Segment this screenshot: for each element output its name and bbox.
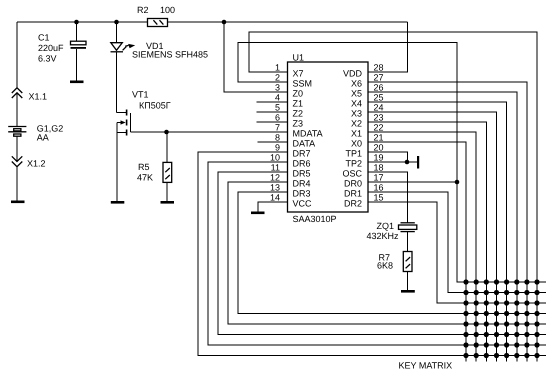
op-amp U1 body (IC SAA3010P)	[288, 62, 369, 212]
svg-text:Z1: Z1	[293, 99, 304, 109]
svg-text:SAA3010P: SAA3010P	[293, 214, 337, 224]
svg-text:X6: X6	[351, 79, 362, 89]
svg-text:16: 16	[374, 183, 384, 193]
svg-text:R2: R2	[137, 5, 149, 15]
svg-text:7: 7	[275, 123, 280, 133]
svg-text:4: 4	[275, 93, 280, 103]
resistor R7	[403, 252, 412, 291]
label AA	[37, 133, 49, 143]
label 100	[160, 5, 175, 15]
svg-text:14: 14	[270, 193, 280, 203]
wire VCC (pin 14) to ground	[258, 202, 288, 212]
ground (R5)	[161, 201, 175, 204]
wire VDD to pin 28	[368, 22, 408, 72]
svg-text:6: 6	[275, 113, 280, 123]
svg-text:DR1: DR1	[344, 189, 362, 199]
ground (pin 14)	[251, 212, 265, 215]
svg-text:ZQ1: ZQ1	[377, 221, 395, 231]
node R5/MDATA junction	[164, 130, 169, 135]
pin numbers left	[270, 63, 280, 203]
svg-text:21: 21	[374, 133, 384, 143]
ground (C1)	[70, 81, 84, 84]
svg-text:15: 15	[374, 193, 384, 203]
svg-text:TP1: TP1	[345, 149, 362, 159]
label R2	[137, 5, 149, 15]
diode VD1 (IR LED)	[111, 22, 136, 113]
label X1.2	[27, 159, 46, 169]
svg-text:X3: X3	[351, 109, 362, 119]
wire X3 (pin 24 to matrix col 4)	[368, 112, 497, 362]
svg-text:C1: C1	[38, 33, 50, 43]
svg-text:13: 13	[270, 183, 280, 193]
wire Z1 stub	[257, 101, 288, 103]
label 220uF	[38, 43, 64, 53]
svg-text:SIEMENS SFH485: SIEMENS SFH485	[132, 50, 208, 60]
label ZQ1	[377, 221, 395, 231]
node VD1/rail junction	[114, 20, 119, 25]
label R5	[138, 162, 150, 172]
key matrix junction dots	[463, 279, 539, 358]
label 47K	[137, 173, 153, 183]
pin labels right	[342, 69, 362, 209]
label 6.3V	[38, 54, 57, 64]
svg-text:DATA: DATA	[293, 139, 316, 149]
ground (R7)	[401, 290, 415, 293]
wire DR5 (pin 11 to row 6)	[218, 172, 546, 335]
label X1.1	[29, 92, 48, 102]
svg-text:X5: X5	[351, 89, 362, 99]
resistor R5	[163, 132, 172, 201]
label VD1	[146, 41, 164, 51]
wire Z2 stub	[257, 111, 288, 113]
svg-text:AA: AA	[37, 133, 49, 143]
label KP505G	[139, 101, 171, 111]
resistor R2	[148, 19, 168, 27]
svg-text:DR6: DR6	[293, 159, 311, 169]
capacitor C1	[71, 22, 87, 81]
svg-text:100: 100	[160, 5, 175, 15]
svg-text:Z0: Z0	[293, 89, 304, 99]
svg-text:КП505Г: КП505Г	[139, 101, 171, 111]
wire X6 (pin 27 to matrix col 7)	[368, 82, 527, 362]
wire DR2 (pin 15 to row 3)	[368, 202, 546, 303]
svg-text:DR5: DR5	[293, 169, 311, 179]
wire X0 (pin 21 to matrix col 1)	[368, 142, 466, 362]
wire Z3 stub	[257, 121, 288, 123]
wire DR4 (pin 12 to row 5)	[228, 182, 546, 324]
svg-text:X7: X7	[293, 69, 304, 79]
crystal ZQ1	[399, 223, 417, 252]
wire DR0 (pin 17)	[368, 181, 457, 183]
node Z0/rail junction	[222, 20, 227, 25]
node DR0/SSM junction	[455, 180, 460, 185]
svg-text:MDATA: MDATA	[293, 129, 323, 139]
svg-text:X4: X4	[351, 99, 362, 109]
svg-text:432KHz: 432KHz	[367, 231, 400, 241]
svg-text:VDD: VDD	[343, 69, 363, 79]
svg-text:11: 11	[271, 163, 280, 173]
wire VDD rail	[17, 21, 408, 23]
connector X1.2	[12, 156, 22, 166]
svg-text:22: 22	[374, 123, 384, 133]
svg-text:9: 9	[275, 143, 280, 153]
svg-text:6.3V: 6.3V	[38, 54, 57, 64]
wire OSC (pin 18 to ZQ1)	[368, 172, 408, 223]
wire MDATA (gate to pin 7)	[131, 131, 288, 133]
svg-text:OSC: OSC	[342, 169, 362, 179]
label VT1	[132, 90, 149, 100]
wire battery branch top	[16, 22, 18, 88]
svg-text:VCC: VCC	[293, 199, 313, 209]
svg-text:12: 12	[270, 173, 280, 183]
svg-text:6K8: 6K8	[377, 261, 393, 271]
wire X1.1 to battery	[16, 93, 18, 126]
svg-text:20: 20	[374, 143, 384, 153]
wire X1.2 to ground	[16, 167, 18, 201]
wire Z0 (pin 3 to rail)	[224, 22, 288, 92]
wire DATA stub	[257, 141, 287, 143]
svg-text:Z2: Z2	[293, 109, 304, 119]
svg-text:TP2: TP2	[345, 159, 362, 169]
wire DR1 (pin 16 to row 2)	[368, 192, 546, 293]
wire X4 (pin 25 to matrix col 5)	[368, 102, 507, 362]
wire SSM route (pin 2 to row 1)	[238, 43, 546, 283]
node TP junction	[405, 160, 410, 165]
wire X2 (pin 23 to matrix col 3)	[368, 122, 486, 362]
pin labels left	[293, 69, 323, 209]
label SIEMENS SFH485	[132, 50, 208, 60]
label R7	[379, 253, 391, 263]
svg-text:X2: X2	[351, 119, 362, 129]
svg-text:26: 26	[374, 83, 384, 93]
wire TP1 (pin 20)	[368, 152, 408, 162]
svg-text:X1.1: X1.1	[29, 92, 48, 102]
svg-text:17: 17	[374, 173, 384, 183]
svg-text:18: 18	[374, 163, 384, 173]
svg-text:5: 5	[275, 103, 280, 113]
svg-text:24: 24	[374, 103, 384, 113]
svg-text:VT1: VT1	[132, 90, 149, 100]
svg-text:X0: X0	[351, 139, 362, 149]
wire X5 (pin 26 to matrix col 6)	[368, 92, 517, 362]
label KEY MATRIX	[399, 361, 453, 371]
node C1/rail junction	[74, 20, 79, 25]
svg-text:19: 19	[374, 153, 384, 163]
wire TP2 (pin 19) to test point	[368, 161, 417, 163]
svg-text:28: 28	[374, 63, 384, 73]
ground (battery)	[11, 201, 25, 204]
svg-text:27: 27	[374, 73, 384, 83]
test point bar	[417, 156, 419, 169]
transistor VT1 (MOSFET)	[117, 110, 131, 202]
wire battery to X1.2	[16, 136, 18, 161]
label SAA3010P	[293, 214, 337, 224]
svg-text:DR3: DR3	[293, 189, 311, 199]
svg-text:X1: X1	[351, 129, 362, 139]
svg-text:3: 3	[275, 83, 280, 93]
svg-text:2: 2	[275, 73, 280, 83]
svg-text:8: 8	[275, 133, 280, 143]
svg-text:220uF: 220uF	[38, 43, 64, 53]
label U1	[293, 53, 305, 63]
label 432KHz	[367, 231, 400, 241]
pin numbers right	[374, 63, 384, 203]
label 6K8	[377, 261, 393, 271]
svg-text:47K: 47K	[137, 173, 153, 183]
wire X1 (pin 22 to matrix col 2)	[368, 132, 476, 362]
svg-text:SSM: SSM	[293, 79, 313, 89]
svg-text:KEY MATRIX: KEY MATRIX	[399, 361, 453, 371]
svg-text:DR7: DR7	[293, 149, 311, 159]
wire DR7 (pin 9 to row 8)	[198, 152, 546, 356]
wire DR3 (pin 13 to row 4)	[238, 192, 546, 314]
svg-text:DR0: DR0	[344, 179, 362, 189]
svg-text:X1.2: X1.2	[27, 159, 46, 169]
label G1,G2	[37, 124, 64, 134]
svg-text:DR2: DR2	[344, 199, 362, 209]
wire DR6 (pin 10 to row 7)	[208, 162, 546, 345]
svg-text:R5: R5	[138, 162, 150, 172]
svg-text:DR4: DR4	[293, 179, 311, 189]
connector X1.1	[12, 88, 22, 98]
wire X7 route (pin 1 to matrix col 8)	[249, 32, 537, 362]
svg-text:23: 23	[374, 113, 384, 123]
ground (VT1 source)	[111, 201, 125, 204]
svg-text:Z3: Z3	[293, 119, 304, 129]
svg-text:25: 25	[374, 93, 384, 103]
label C1	[38, 33, 50, 43]
svg-text:10: 10	[270, 153, 280, 163]
battery G1,G2	[8, 127, 26, 137]
svg-text:1: 1	[275, 63, 280, 73]
svg-text:U1: U1	[293, 53, 305, 63]
